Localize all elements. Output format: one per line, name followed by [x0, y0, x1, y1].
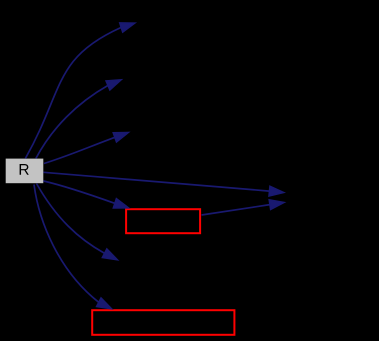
arrowhead box1->node4 — [269, 200, 285, 210]
arrowhead R->node5 — [102, 249, 118, 260]
wire edge R->node3 — [44, 137, 115, 163]
wire edge R->box2 — [34, 185, 99, 303]
wire edge R->node5 — [37, 184, 105, 254]
node box2 (red truncated node) — [92, 310, 234, 335]
arrowhead R->box2 — [96, 298, 112, 309]
wire edge box1->node4 — [202, 205, 270, 215]
arrowhead R->node4 — [269, 186, 284, 196]
arrowhead R->box1 — [113, 198, 129, 208]
arrowhead R->node2 — [106, 80, 122, 91]
node box1 (red truncated node) — [126, 209, 200, 233]
wire edge R->box1 — [44, 181, 115, 203]
node R box — [6, 159, 44, 184]
wire edge R->node4 — [44, 172, 270, 191]
wire edge R->node1 — [25, 28, 121, 159]
arrowhead R->node1 — [120, 23, 136, 33]
arrowhead R->node3 — [113, 132, 129, 142]
wire edge R->node2 — [36, 86, 108, 159]
node R label — [20, 164, 29, 175]
